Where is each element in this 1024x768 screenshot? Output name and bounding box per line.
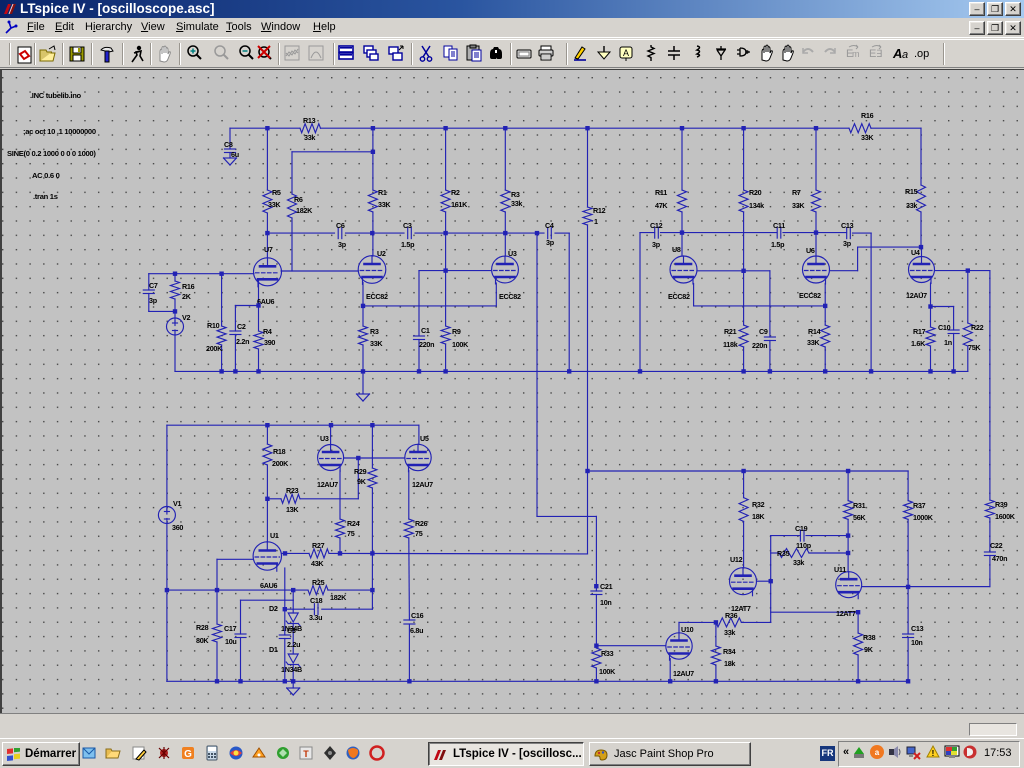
voltage source V1 360 [166, 425, 168, 506]
triode U6 ECC82 [803, 256, 830, 283]
svg-text:.op: .op [914, 48, 929, 60]
wire U2 cathode row [362, 283, 364, 306]
capacitor C10 1n [953, 307, 955, 331]
svg-text:C7: C7 [149, 281, 158, 290]
svg-text:U3: U3 [320, 434, 329, 443]
status bar [0, 713, 1024, 738]
resistor R33 100K [595, 646, 597, 648]
wire lower section top rail [167, 424, 419, 426]
svg-text:AC 0.6 0: AC 0.6 0 [32, 171, 60, 180]
svg-text:1.5p: 1.5p [401, 240, 415, 249]
svg-text:2.2u: 2.2u [287, 640, 300, 649]
svg-text:R3: R3 [511, 190, 520, 199]
resistor R16 2K [174, 274, 176, 281]
resistor R31 56K [847, 471, 849, 501]
capacitor C6 3p [337, 228, 339, 239]
svg-text:161K: 161K [451, 200, 468, 209]
svg-text:C4: C4 [545, 221, 554, 230]
svg-text:!: ! [932, 749, 935, 758]
svg-text:R5: R5 [272, 188, 281, 197]
svg-text:U7: U7 [264, 245, 273, 254]
capacitor C4 3p [547, 228, 549, 239]
wire grid node to V1 column [167, 589, 217, 591]
resistor R11 47K / U8 plate column [681, 128, 683, 190]
wire U4 cathode node [930, 283, 932, 307]
svg-text:182K: 182K [330, 593, 347, 602]
resistor R29 9K long column [371, 425, 373, 468]
svg-text:U6: U6 [806, 246, 815, 255]
svg-text:R23: R23 [286, 486, 299, 495]
wire long column to lower section [536, 233, 538, 516]
capacitor C7 3p input [148, 274, 150, 290]
svg-text:D1: D1 [269, 645, 278, 654]
wire U7 cathode node [258, 281, 260, 306]
wire R5 column / U7 plate [266, 128, 268, 190]
svg-text:R7: R7 [792, 188, 801, 197]
capacitor C16 6.8u [404, 619, 415, 621]
svg-text:R6: R6 [294, 195, 303, 204]
wire U7 grid to U2 [281, 270, 358, 272]
diode D2 1N34B [292, 600, 294, 613]
wire U10 grid [596, 645, 665, 647]
svg-text:33k: 33k [304, 133, 315, 142]
resistor R10 200K [221, 274, 223, 326]
svg-text:3.3u: 3.3u [309, 613, 322, 622]
svg-text:m: m [852, 49, 860, 59]
svg-text:1.6K: 1.6K [911, 339, 926, 348]
svg-text:R18: R18 [273, 447, 286, 456]
svg-text:18K: 18K [752, 512, 765, 521]
svg-text:200K: 200K [206, 344, 223, 353]
triode U3 12AU7 (lower) [330, 425, 332, 444]
svg-text:C9: C9 [759, 327, 768, 336]
wire U3-U5 grid row [344, 457, 405, 459]
wire U10 plate to R36/R34 node [678, 622, 680, 633]
svg-text:V2: V2 [182, 313, 190, 322]
svg-text:U1: U1 [270, 531, 279, 540]
capacitor C9 220n [764, 336, 775, 338]
capacitor C2 2.2n [234, 306, 236, 332]
svg-text:C6: C6 [336, 221, 345, 230]
svg-text:C16: C16 [411, 611, 424, 620]
capacitor C3 1.5p [407, 228, 409, 239]
wire C18 row [322, 608, 373, 610]
svg-text:R13: R13 [303, 116, 316, 125]
svg-text:182K: 182K [296, 206, 313, 215]
resistor R18 200K [266, 425, 268, 444]
svg-text:33k: 33k [511, 199, 522, 208]
svg-text:R24: R24 [347, 519, 360, 528]
svg-text:C1: C1 [421, 326, 430, 335]
svg-text:3p: 3p [546, 238, 555, 247]
svg-text:.tran 1s: .tran 1s [33, 192, 58, 201]
resistor R4 390 [258, 306, 260, 332]
svg-text:6u: 6u [231, 150, 239, 159]
svg-text:80K: 80K [196, 636, 209, 645]
taskbar [0, 738, 1024, 768]
svg-text:R33: R33 [601, 649, 614, 658]
wire U3 grid row [419, 270, 492, 272]
capacitor C3 2.2u [279, 634, 290, 636]
wire R6 jog from rail [372, 128, 374, 190]
svg-text:C13: C13 [911, 624, 924, 633]
capacitor C11 1.5p [776, 227, 778, 238]
resistor R32 18K [743, 471, 745, 498]
resistor R26 75 / C16 column [408, 471, 410, 520]
capacitor C1 220n [418, 271, 420, 336]
svg-text:3p: 3p [149, 296, 158, 305]
svg-text:U12: U12 [730, 555, 743, 564]
svg-text:470n: 470n [992, 554, 1007, 563]
svg-text:ECC82: ECC82 [366, 292, 388, 301]
svg-text:R14: R14 [808, 327, 821, 336]
svg-text:47K: 47K [655, 201, 668, 210]
ground below lower rail [292, 681, 294, 688]
svg-text:33K: 33K [370, 339, 383, 348]
svg-text:C11: C11 [773, 221, 785, 230]
svg-text:33k: 33k [793, 558, 804, 567]
svg-text:R36: R36 [725, 611, 738, 620]
svg-text:360: 360 [172, 523, 183, 532]
svg-text:U5: U5 [420, 434, 429, 443]
svg-text:R38: R38 [863, 633, 876, 642]
svg-text:9K: 9K [864, 645, 874, 654]
triode U10 12AU7 [666, 633, 692, 659]
wire U12 grid node [757, 580, 771, 582]
svg-text:D2: D2 [269, 604, 278, 613]
svg-text:10n: 10n [911, 638, 923, 647]
svg-text:3p: 3p [843, 239, 852, 248]
svg-text:C21: C21 [600, 582, 613, 591]
svg-text:U3: U3 [508, 249, 517, 258]
resistor R22 75K [967, 271, 969, 323]
wire top supply rail [230, 127, 300, 129]
svg-text:R15: R15 [905, 187, 918, 196]
resistor R13 33k [300, 124, 321, 133]
diode D1 1N34B [288, 654, 298, 663]
triode U2 ECC82 [358, 256, 386, 284]
svg-text:100K: 100K [452, 340, 469, 349]
svg-text:R28: R28 [196, 623, 209, 632]
svg-text:C13: C13 [841, 221, 854, 230]
svg-text:R3: R3 [370, 327, 379, 336]
svg-text:390: 390 [264, 338, 275, 347]
svg-text:100K: 100K [599, 667, 616, 676]
capacitor C12 3p [654, 227, 656, 238]
svg-text:200K: 200K [272, 459, 289, 468]
svg-text:V1: V1 [173, 499, 181, 508]
capacitor C8 6u with ground [229, 128, 231, 149]
svg-text:6AU6: 6AU6 [260, 581, 277, 590]
svg-text:C10: C10 [938, 323, 951, 332]
svg-text:134k: 134k [749, 201, 764, 210]
svg-text:A: A [623, 48, 629, 58]
svg-text:R35: R35 [777, 549, 790, 558]
svg-text:43K: 43K [311, 559, 324, 568]
resistor R38 9K [857, 612, 859, 633]
svg-text:18k: 18k [724, 659, 735, 668]
svg-text:R12: R12 [593, 206, 606, 215]
svg-text:U11: U11 [834, 565, 846, 574]
capacitor C18 3.3u [313, 604, 315, 615]
svg-text:R37: R37 [913, 501, 926, 510]
svg-text:R39: R39 [995, 500, 1008, 509]
svg-text:U2: U2 [377, 249, 386, 258]
svg-text:12AU7: 12AU7 [906, 291, 927, 300]
svg-text:R2: R2 [451, 188, 460, 197]
resistor R2 161K column [445, 128, 447, 190]
svg-text:R27: R27 [312, 541, 325, 550]
svg-text:G: G [184, 749, 192, 760]
svg-text:33K: 33K [268, 200, 281, 209]
svg-text:T: T [303, 749, 309, 759]
svg-text:R16: R16 [861, 111, 874, 120]
wire U4 grid output [935, 270, 990, 272]
resistor R17 1.6K [930, 307, 932, 328]
wire diode/C17 branch [292, 590, 294, 600]
capacitor C19 110p feedback [771, 535, 801, 537]
capacitor C17 10u [240, 600, 242, 634]
resistor R3 33K (U2 cathode) [362, 306, 364, 326]
svg-text:R20: R20 [749, 188, 762, 197]
svg-text:ECC82: ECC82 [799, 291, 821, 300]
resistor R25 182K row [217, 589, 308, 591]
svg-text:12AU7: 12AU7 [673, 669, 694, 678]
resistor R28 80K [216, 590, 218, 624]
svg-text:C17: C17 [224, 624, 237, 633]
svg-text:13K: 13K [286, 505, 299, 514]
svg-text:R11: R11 [655, 188, 667, 197]
svg-text:C8: C8 [224, 140, 233, 149]
svg-text:33K: 33K [861, 133, 874, 142]
svg-text:1.5p: 1.5p [771, 240, 785, 249]
svg-text:R32: R32 [752, 500, 765, 509]
resistor R36 33k [716, 618, 742, 627]
wire U8 cathode row [693, 284, 695, 306]
svg-text:110p: 110p [796, 541, 812, 550]
triode U1 6AU6 [253, 542, 281, 570]
wire U1 cathode / C3 column [284, 568, 286, 635]
menu bar [0, 18, 1024, 38]
svg-text:3p: 3p [652, 240, 661, 249]
window title bar [0, 0, 1024, 18]
svg-text:R1: R1 [378, 188, 387, 197]
svg-text:1N34B: 1N34B [281, 665, 302, 674]
svg-text:R29: R29 [354, 467, 367, 476]
svg-text:220n: 220n [419, 340, 434, 349]
wire bottom ground rail [167, 680, 908, 682]
svg-text:R16: R16 [182, 282, 195, 291]
resistor R21 118k [739, 325, 748, 347]
wire U10 cathode [669, 659, 671, 682]
resistor R12 1 long column [587, 128, 589, 207]
svg-text:1600K: 1600K [995, 512, 1016, 521]
toolbar [0, 39, 1024, 68]
svg-text:R9: R9 [452, 327, 461, 336]
svg-text:C2: C2 [237, 322, 246, 331]
resistor R20 134k column [743, 128, 745, 190]
svg-text:2.2n: 2.2n [236, 337, 249, 346]
svg-text:U10: U10 [681, 625, 694, 634]
triode U11 12AT7 [836, 572, 862, 598]
resistor R24 75 (U3 cathode) [339, 471, 341, 520]
wire bottom rail of top section [175, 370, 968, 372]
triode U4 12AU7 [909, 257, 935, 283]
wire C12 left drop to rail [639, 233, 641, 372]
triode U8 ECC82 [670, 256, 697, 283]
svg-text:6.8u: 6.8u [410, 626, 423, 635]
svg-text:75K: 75K [968, 343, 981, 352]
svg-text:C22: C22 [990, 541, 1003, 550]
wire U6 grid loop to U4 plate node [830, 270, 858, 272]
capacitor C13 10n (lower) [903, 633, 914, 635]
wire U8 grid [697, 270, 770, 272]
svg-text:118k: 118k [723, 340, 738, 349]
svg-text:33K: 33K [807, 338, 820, 347]
svg-text:220n: 220n [752, 341, 767, 350]
resistor R14 33K / U6 cathode [824, 284, 826, 326]
resistor R5 33K [263, 190, 272, 213]
resistor R9 100K [445, 271, 447, 326]
svg-text:C18: C18 [310, 596, 323, 605]
wire U11 grid row [862, 586, 990, 588]
svg-text:a: a [902, 49, 908, 61]
resistor R35 33k feedback [771, 552, 779, 554]
svg-text:.INC tubelib.ino: .INC tubelib.ino [30, 91, 82, 100]
svg-text:a: a [875, 748, 880, 757]
svg-text:R4: R4 [263, 327, 272, 336]
wire grid coupling row y=233 [267, 232, 334, 234]
svg-text:U8: U8 [672, 245, 681, 254]
svg-text:3p: 3p [338, 240, 347, 249]
svg-text:12AU7: 12AU7 [317, 480, 338, 489]
resistor R23 13K [267, 498, 281, 500]
svg-text:R10: R10 [207, 321, 220, 330]
svg-text:12AT7: 12AT7 [836, 609, 856, 618]
resistor R15 33k / U4 plate column [920, 128, 922, 185]
svg-text:33k: 33k [906, 201, 917, 210]
wire mid supply rail y=471 [588, 470, 909, 472]
svg-text:R34: R34 [723, 647, 736, 656]
svg-text:10n: 10n [600, 598, 612, 607]
triode U5 12AU7 [405, 444, 431, 470]
svg-text:R31: R31 [853, 501, 866, 510]
resistor R1 33K / U2 plate column [368, 190, 377, 212]
svg-text:C3: C3 [287, 626, 296, 635]
resistor R3 33k / U3 plate column [504, 128, 506, 190]
svg-text:33K: 33K [792, 201, 805, 210]
svg-text:U4: U4 [911, 248, 920, 257]
resistor R6 182K [288, 194, 297, 218]
svg-text:SINE(0 0.2 1000 0 0 0 1000): SINE(0 0.2 1000 0 0 0 1000) [7, 149, 96, 158]
svg-text:10u: 10u [225, 637, 237, 646]
svg-text:ECC82: ECC82 [499, 292, 521, 301]
ground below rail [362, 371, 364, 394]
wire U7 grid input [149, 273, 254, 275]
capacitor C22 470n [984, 551, 995, 553]
resistor R7 33K / U6 plate column [815, 128, 817, 190]
triode U7 6AU6 [254, 258, 282, 286]
svg-text:R17: R17 [913, 327, 926, 336]
junction dots [265, 126, 269, 130]
svg-text:ECC82: ECC82 [668, 292, 690, 301]
resistor R34 18k [715, 622, 717, 646]
resistor R39 1600K [985, 500, 994, 518]
svg-text:33K: 33K [378, 200, 391, 209]
svg-text:R22: R22 [971, 323, 984, 332]
svg-text:A: A [892, 46, 902, 61]
wire C12 row [640, 232, 655, 234]
svg-text:9K: 9K [357, 477, 367, 486]
svg-text:R21: R21 [724, 327, 737, 336]
resistor R16 33K (top right) [849, 124, 871, 133]
svg-text:1: 1 [594, 217, 598, 226]
triode U3 ECC82 [492, 256, 519, 283]
svg-text:R25: R25 [312, 578, 325, 587]
svg-text:56K: 56K [853, 513, 866, 522]
svg-text:C19: C19 [795, 524, 808, 533]
svg-text:∃: ∃ [876, 49, 882, 60]
svg-text:75: 75 [415, 529, 423, 538]
svg-text:2K: 2K [182, 292, 192, 301]
wire U1 grid loop [217, 558, 253, 560]
svg-text:R26: R26 [415, 519, 428, 528]
svg-text:1000K: 1000K [913, 513, 934, 522]
voltage source V2 [174, 311, 176, 318]
svg-text:;ac oct 10 .1 10000000: ;ac oct 10 .1 10000000 [23, 127, 96, 136]
svg-text:12AU7: 12AU7 [412, 480, 433, 489]
resistor R27 43K output row [281, 552, 309, 554]
svg-text:75: 75 [347, 529, 355, 538]
capacitor C13 3p [846, 228, 848, 239]
svg-text:1n: 1n [944, 338, 952, 347]
resistor R37 1000K [904, 501, 913, 520]
capacitor C21 10n [591, 590, 602, 592]
svg-text:C12: C12 [650, 221, 663, 230]
svg-text:33k: 33k [724, 628, 735, 637]
svg-text:C3: C3 [403, 221, 412, 230]
wire to U11 cathode row [771, 611, 858, 613]
triode U12 12AT7 [730, 568, 757, 595]
